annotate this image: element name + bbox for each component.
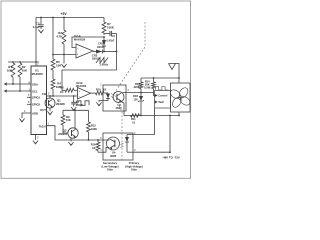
pulse waveform symbol bbox=[156, 87, 169, 91]
wire R3 divider to ground bbox=[63, 55, 65, 64]
svg-text:100K: 100K bbox=[107, 26, 115, 30]
svg-text:MAX6650: MAX6650 bbox=[32, 73, 44, 76]
wire TACH bbox=[47, 126, 104, 140]
resistor R15 bbox=[88, 110, 90, 122]
svg-text:Tach: Tach bbox=[158, 100, 164, 104]
svg-text:MAX4326: MAX4326 bbox=[76, 85, 87, 88]
wire -48V riser bbox=[169, 116, 171, 153]
svg-text:4.7K: 4.7K bbox=[56, 35, 63, 39]
arrow SDA to host bbox=[4, 82, 7, 85]
junction riser diodes bbox=[116, 51, 118, 53]
svg-text:0.1µF: 0.1µF bbox=[33, 25, 40, 29]
sawtooth waveform symbol bbox=[96, 58, 108, 64]
resistor R2 bbox=[18, 63, 22, 77]
wire triangle node to opamp B plus bbox=[62, 70, 117, 90]
wire opamp A minus feedback bbox=[72, 37, 104, 48]
capacitor C4 bbox=[73, 96, 75, 102]
svg-text:SDA: SDA bbox=[32, 82, 38, 86]
svg-text:CR1: CR1 bbox=[98, 41, 104, 45]
junction rail fan bbox=[178, 77, 180, 79]
wire Q1 base bbox=[49, 96, 51, 98]
svg-text:MAX4326: MAX4326 bbox=[74, 39, 86, 42]
junction R5 top divider node bbox=[52, 54, 54, 56]
wire U3 LED cathode to ground bbox=[99, 101, 103, 103]
junction on +5V rail at C2 bbox=[40, 17, 42, 19]
wire FB to opamp B minus bbox=[47, 95, 78, 97]
svg-text:1N914: 1N914 bbox=[97, 46, 105, 49]
svg-text:FB: FB bbox=[42, 92, 46, 96]
IC U1 MAX6650 box bbox=[31, 66, 47, 135]
svg-text:10K: 10K bbox=[22, 69, 28, 73]
svg-text:4N25: 4N25 bbox=[110, 154, 117, 158]
svg-text:SCL: SCL bbox=[32, 89, 38, 93]
wire U4 transistor emitter bbox=[103, 147, 109, 152]
junction CR1 on output bbox=[103, 51, 105, 53]
svg-text:2N3906: 2N3906 bbox=[56, 103, 65, 106]
optocoupler U3 4N25 box bbox=[103, 85, 126, 111]
op-amp U2-B bbox=[78, 88, 91, 100]
ground below R3 divider bbox=[61, 64, 66, 67]
svg-text:0.47µF: 0.47µF bbox=[107, 40, 115, 43]
svg-text:1K: 1K bbox=[60, 90, 64, 94]
svg-text:GPIO1: GPIO1 bbox=[32, 96, 40, 100]
junction pullup rail R1 bbox=[12, 61, 14, 63]
wire pullup rail bbox=[8, 61, 39, 63]
wire low rail bbox=[124, 115, 179, 117]
capacitor C3 bbox=[104, 33, 110, 35]
svg-text:Q1: Q1 bbox=[57, 99, 61, 103]
resistor R4 bbox=[51, 79, 55, 89]
resistor R7 bbox=[102, 22, 106, 33]
svg-text:C4: C4 bbox=[76, 100, 80, 104]
svg-text:1-2kHz: 1-2kHz bbox=[100, 62, 109, 66]
junction oscillator node bbox=[103, 36, 105, 38]
svg-text:U1: U1 bbox=[35, 69, 39, 73]
ground below Q1 bbox=[47, 111, 52, 114]
resistor R14 bbox=[153, 78, 155, 82]
arrow SCL to host bbox=[4, 89, 7, 92]
pin ADD wire bbox=[22, 113, 31, 118]
svg-text:4N25: 4N25 bbox=[116, 106, 123, 110]
junction R3 bottom bbox=[63, 54, 65, 56]
wire U3 emitter bbox=[121, 101, 125, 115]
diode CR1 bbox=[103, 37, 105, 40]
junction TACH R15 bbox=[88, 139, 90, 141]
diode U3 LED bbox=[104, 92, 108, 94]
svg-text:1K: 1K bbox=[103, 87, 106, 91]
wire U4 LED anode pin bbox=[127, 134, 133, 136]
resistor R9 bbox=[62, 110, 64, 115]
svg-text:0.5W: 0.5W bbox=[144, 86, 151, 90]
resistor R6 bbox=[65, 88, 74, 92]
junction low rail -48 riser bbox=[169, 115, 171, 117]
wire U4 LED cathode pin bbox=[127, 151, 133, 153]
resistor R13 bbox=[140, 78, 142, 82]
svg-text:10K: 10K bbox=[7, 69, 13, 73]
junction SDA R1 bbox=[12, 83, 14, 85]
resistor R1 bbox=[11, 63, 15, 77]
junction R13 zener bbox=[140, 92, 142, 94]
resistor R16 bbox=[96, 142, 100, 151]
wire U4 emitter pin bbox=[98, 151, 103, 153]
LED arrows U3 bbox=[111, 94, 114, 96]
wire opamp A output bbox=[93, 51, 96, 53]
svg-text:+5V: +5V bbox=[61, 12, 68, 16]
wire control bbox=[154, 93, 155, 96]
square wave symbol bbox=[77, 101, 89, 106]
junction SCL R2 bbox=[19, 90, 21, 92]
transistor Q1 bbox=[45, 98, 55, 108]
wire U4 transistor collector bbox=[103, 139, 110, 141]
ground at ADD pin bbox=[19, 119, 24, 122]
junction -48V node bbox=[169, 151, 171, 153]
transistor Q2 bbox=[68, 128, 78, 138]
border frame bbox=[1, 1, 191, 178]
junction zener low rail bbox=[140, 115, 142, 117]
svg-text:10K: 10K bbox=[56, 64, 62, 68]
ground below C2 bbox=[38, 30, 43, 33]
svg-text:Side: Side bbox=[107, 168, 113, 172]
resistor R3 bbox=[63, 18, 65, 31]
wire +5V down-left to pullup rail bbox=[35, 18, 37, 63]
diode CR2 bbox=[96, 50, 103, 54]
wire Q2 collector riser bbox=[74, 110, 76, 128]
resistor R11 bbox=[131, 114, 140, 117]
optocoupler U4 4N25 box bbox=[103, 133, 133, 160]
svg-text:2N3904: 2N3904 bbox=[58, 133, 67, 136]
resistor R5 bbox=[51, 59, 55, 70]
svg-text:100µF: 100µF bbox=[76, 104, 84, 107]
svg-text:R6: R6 bbox=[60, 85, 64, 89]
junction TACH R16 bbox=[97, 139, 99, 141]
fan blades bbox=[178, 96, 182, 100]
junction FB C4 bbox=[73, 95, 75, 97]
ground below Q2 bbox=[68, 142, 73, 145]
optocoupler U3 phototransistor bbox=[113, 92, 124, 103]
junction Q1 base on FB wire bbox=[49, 95, 51, 97]
isolation barrier dashed line bbox=[114, 22, 145, 161]
op-amp U2-A bbox=[76, 44, 93, 58]
chassis symbol fan supply bbox=[169, 64, 176, 70]
wire fan negative pin bbox=[178, 112, 180, 116]
fan connector box bbox=[155, 91, 171, 109]
wire Q2 emitter to ground bbox=[70, 138, 72, 142]
wire tach from fan connector bbox=[133, 108, 155, 135]
wire Q1 emitter to ground bbox=[49, 108, 51, 111]
svg-text:10K: 10K bbox=[66, 118, 71, 122]
svg-text:Side: Side bbox=[131, 168, 137, 172]
wire -48V return bbox=[133, 151, 170, 153]
junction pullup rail Vcc riser bbox=[35, 61, 37, 63]
wire SCL bbox=[7, 90, 31, 92]
wire timing node riser bbox=[116, 34, 118, 71]
resistor R10 bbox=[96, 91, 105, 95]
svg-text:-48V TO -72V: -48V TO -72V bbox=[162, 155, 180, 159]
zener diode CR3 bbox=[140, 93, 142, 96]
junction on +5V rail at R3 column bbox=[63, 17, 65, 19]
wire OUT net bbox=[63, 109, 89, 111]
svg-text:R10: R10 bbox=[96, 87, 101, 91]
fan box bbox=[171, 83, 191, 112]
svg-text:100K: 100K bbox=[91, 128, 97, 131]
arrow control bbox=[155, 94, 158, 97]
pin GND stub bbox=[35, 135, 37, 141]
svg-text:ADD: ADD bbox=[32, 111, 38, 115]
svg-text:1K: 1K bbox=[92, 146, 95, 150]
svg-text:GPIO2: GPIO2 bbox=[32, 103, 40, 107]
wire +5V corner to R7 bbox=[103, 18, 105, 23]
svg-text:TACH: TACH bbox=[38, 124, 45, 128]
pin Vcc stub bbox=[35, 62, 37, 66]
wire fan plus bbox=[178, 78, 180, 83]
wire R5 column upper bbox=[52, 18, 54, 55]
svg-text:C3: C3 bbox=[112, 34, 116, 38]
wire SDA bbox=[7, 83, 31, 85]
optocoupler U4 phototransistor bbox=[107, 137, 120, 150]
svg-text:Control: Control bbox=[158, 94, 167, 98]
ground below C4 bbox=[71, 107, 76, 110]
junction fan negative bbox=[178, 115, 180, 117]
svg-text:220K: 220K bbox=[134, 85, 140, 89]
pin GPIO1 stub bbox=[27, 96, 31, 98]
svg-text:U2-B: U2-B bbox=[76, 81, 83, 85]
arrow tach bbox=[155, 100, 158, 103]
wire +5V rail bbox=[36, 17, 104, 19]
capacitor C2 bbox=[40, 18, 42, 25]
wire opamp A plus input bbox=[53, 54, 76, 56]
wire fan positive rail bbox=[141, 77, 179, 79]
junction pullup rail R2 bbox=[19, 61, 21, 63]
wire U3 collector out bbox=[123, 92, 154, 94]
wire opamp B output bbox=[91, 92, 96, 94]
svg-text:15V: 15V bbox=[133, 97, 138, 101]
svg-text:OUT: OUT bbox=[40, 108, 46, 112]
LED arrows U4 bbox=[121, 143, 124, 145]
junction FB R4 bbox=[52, 95, 54, 97]
diode U4 LED bbox=[126, 135, 128, 138]
junction on +5V rail at R5 column bbox=[52, 17, 54, 19]
junction rail R14 bbox=[153, 77, 155, 79]
junction Q2 collector bbox=[74, 109, 76, 111]
ground below U3 LED bbox=[96, 102, 101, 105]
pin GPIO2 stub bbox=[27, 103, 31, 105]
ground below IC U1 bbox=[33, 141, 38, 144]
